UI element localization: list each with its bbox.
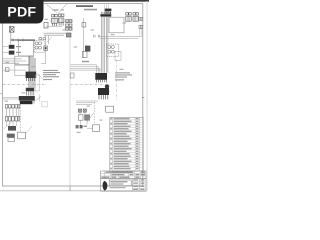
wire: L1 feed bbox=[26, 126, 33, 133]
dark label box bbox=[20, 101, 32, 104]
wire: pair to bus bbox=[44, 33, 68, 35]
sheet title text bbox=[76, 5, 97, 10]
dash-dot boundary line right bbox=[71, 84, 111, 86]
PDF badge bbox=[0, 0, 44, 24]
relay bank row A bbox=[19, 96, 35, 104]
svg-text:PDF: PDF bbox=[7, 5, 36, 21]
vertical bus bundle bbox=[29, 56, 35, 89]
wire: main bus y=40 bbox=[11, 39, 36, 41]
dashed drop bbox=[20, 104, 22, 132]
wire: meter leads bbox=[3, 47, 9, 53]
wire: vertical x=83.5 bbox=[83, 18, 85, 58]
load box L2 bbox=[93, 125, 100, 132]
relay K3 group bbox=[66, 20, 72, 37]
notes list right bbox=[115, 72, 132, 80]
page background bbox=[0, 0, 149, 198]
load box L3 bbox=[106, 106, 114, 112]
enclosure box B1 bbox=[19, 41, 34, 56]
label text meters bbox=[16, 46, 21, 47]
relay bank C (dark with pins) bbox=[98, 88, 109, 99]
terminal cluster X2 bbox=[8, 126, 16, 131]
left fold tick bbox=[0, 92, 2, 95]
wire: breaker drops bbox=[80, 112, 93, 128]
box below X3 bbox=[8, 138, 15, 142]
leader diagonal bbox=[4, 121, 13, 129]
terminal strip comb top bbox=[100, 12, 111, 17]
table text smudges bbox=[110, 118, 138, 169]
revision header text bbox=[112, 172, 132, 173]
vertical bus 5 wires bbox=[101, 17, 108, 73]
wire tick marks bbox=[94, 35, 100, 38]
dash-dot boundary line left bbox=[3, 84, 46, 86]
wire: long drop x=70 bbox=[69, 37, 71, 190]
label under K6 bbox=[82, 61, 89, 62]
switch row bbox=[5, 116, 19, 121]
vertical dash-dot boundary bbox=[116, 60, 118, 100]
leader diagonals from top frame bbox=[46, 4, 67, 13]
motor M1 dark circles bbox=[105, 84, 109, 93]
enclosure box B2 bbox=[15, 56, 30, 64]
title text box bbox=[109, 180, 131, 186]
wire: stubs above comb bbox=[105, 5, 109, 14]
dashed drop right bbox=[94, 102, 96, 125]
notes list left bbox=[43, 70, 60, 80]
terminal cluster X3 bbox=[7, 134, 15, 138]
meter P1 bbox=[9, 45, 15, 49]
wire: feeder steps bbox=[3, 59, 26, 63]
fuse row F1..F6 bbox=[5, 105, 19, 108]
wire to contactor bbox=[3, 69, 26, 71]
tiny labels above relays bbox=[53, 9, 59, 10]
border frame bbox=[2, 4, 142, 186]
right cells bbox=[132, 179, 139, 192]
wire: feeder drop x=45.6 bbox=[41, 36, 49, 64]
fuse on feeder bbox=[44, 46, 48, 51]
revision strip bbox=[101, 171, 146, 179]
relay K6 bbox=[82, 51, 87, 57]
node ticks on bus bbox=[13, 39, 23, 42]
tiny box left bbox=[70, 73, 74, 78]
wire: vertical from badge bbox=[10, 26, 12, 45]
terminal comb top-right bbox=[105, 9, 112, 15]
load box L1 bbox=[18, 132, 26, 139]
title block body bbox=[101, 179, 146, 192]
wire: leader from label bbox=[35, 95, 41, 102]
relay K5 bbox=[85, 46, 90, 52]
tiny comps above dashed box bbox=[39, 38, 46, 40]
leader diagonal top bbox=[47, 37, 52, 42]
enclosure box big bbox=[109, 17, 124, 33]
contactor Q1 dark cluster bbox=[26, 72, 37, 81]
leader diagonal right bbox=[87, 112, 94, 121]
breaker group boxes bbox=[78, 115, 89, 120]
relay bank B (dark) bbox=[95, 73, 107, 82]
aux box right of label bbox=[42, 102, 47, 107]
wires joining bus bbox=[71, 65, 102, 73]
logo bbox=[103, 181, 108, 191]
relay K1 group bbox=[52, 14, 58, 26]
right trim edge bbox=[146, 1, 149, 191]
breaker group X marks bbox=[78, 109, 86, 112]
relay K4 bbox=[82, 23, 86, 27]
dashed box cluster right bbox=[106, 44, 118, 57]
top trim edge bbox=[0, 0, 149, 2]
scattered designator labels bbox=[5, 19, 127, 133]
wire: feeders to bank bbox=[3, 97, 19, 99]
wires across right bbox=[100, 36, 142, 38]
cluster row small comps bbox=[76, 125, 87, 128]
wire: drops to terminals bbox=[7, 121, 17, 126]
small comp S1 bbox=[5, 68, 9, 72]
tall rect outline bbox=[35, 75, 39, 91]
wires from bank C going left bbox=[76, 101, 98, 105]
lamp H1 bbox=[9, 27, 14, 33]
box right of cluster bbox=[115, 52, 121, 61]
center-bottom fold tick bbox=[69, 186, 72, 191]
comp pair near frame bbox=[139, 17, 143, 20]
right fold tick bbox=[142, 96, 144, 99]
bottom trim line bbox=[0, 189, 146, 192]
enclosure box B3 bbox=[15, 65, 30, 75]
small text under title box bbox=[110, 187, 126, 188]
relay K8 group bbox=[133, 13, 138, 22]
terminal comb X1 bbox=[26, 88, 34, 96]
wire: drops between fuse rows bbox=[7, 108, 19, 116]
relay K2 group bbox=[44, 14, 64, 28]
diagonal stroke bbox=[38, 73, 44, 80]
relay K7 group bbox=[126, 13, 131, 22]
meter P2 bbox=[9, 51, 15, 55]
dashed box with CTs bbox=[34, 41, 44, 53]
wire: relay pins bus bbox=[46, 25, 62, 27]
